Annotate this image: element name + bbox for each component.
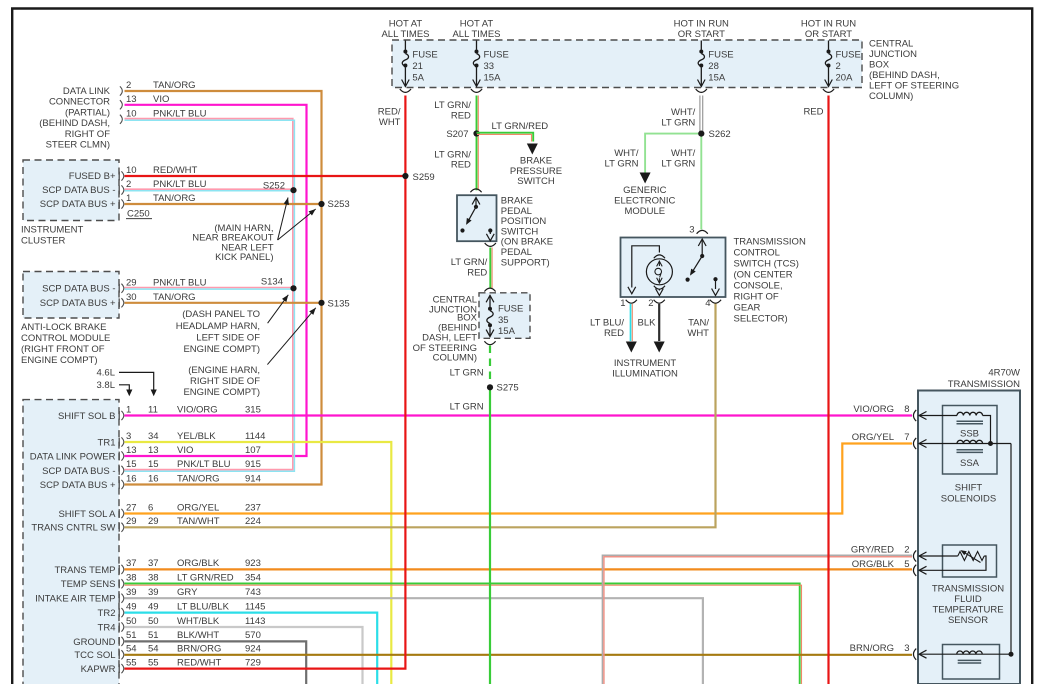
svg-text:10: 10: [126, 108, 137, 119]
svg-text:SUPPORT): SUPPORT): [501, 257, 550, 268]
svg-text:11: 11: [148, 404, 158, 415]
svg-text:TAN/: TAN/: [688, 318, 709, 329]
wire TAN/ORG: IC pin1 -> S253: [125, 203, 322, 205]
svg-text:SHIFT SOL B: SHIFT SOL B: [58, 411, 116, 422]
wire PNK/LT BLU: DLC pin10 -> S252 -> S134 -> PCM pin15 (pink strand): [125, 119, 293, 470]
wire RED: fuse2 -> off-page bottom: [827, 96, 829, 684]
svg-text:(BEHIND DASH,: (BEHIND DASH,: [39, 118, 110, 129]
svg-text:SHIFT: SHIFT: [955, 483, 983, 494]
svg-text:ENGINE COMPT): ENGINE COMPT): [183, 387, 260, 398]
svg-text:VIO: VIO: [153, 94, 169, 105]
PCM pin 15 (SCP DATA BUS -): [118, 466, 120, 475]
svg-text:39: 39: [126, 587, 137, 598]
svg-text:TCC SOL: TCC SOL: [74, 650, 115, 661]
svg-text:SSA: SSA: [960, 458, 980, 469]
central junction box (fuse 35): [479, 293, 530, 339]
callout arrow to S252: [278, 198, 288, 241]
svg-text:TR2: TR2: [98, 608, 116, 619]
svg-text:4.6L: 4.6L: [97, 368, 116, 379]
wire ORG/YEL 237: PCM pin27 -> transmission pin7: [125, 444, 913, 514]
wire LT GRN/RED (red strand): [477, 96, 479, 191]
TCS switch arm (pin3): [701, 239, 703, 256]
svg-text:50: 50: [148, 616, 159, 627]
svg-text:KICK PANEL): KICK PANEL): [215, 252, 273, 263]
wire TAN/ORG: DLC pin2 -> S253 -> S135 -> PCM pin16: [125, 91, 322, 485]
svg-text:(ON CENTER: (ON CENTER: [734, 270, 793, 281]
svg-text:3.8L: 3.8L: [97, 380, 116, 391]
PCM pin 16 (SCP DATA BUS +): [118, 480, 120, 489]
svg-text:TAN/ORG: TAN/ORG: [153, 193, 196, 204]
svg-text:20A: 20A: [836, 73, 854, 84]
svg-text:RED: RED: [451, 160, 471, 171]
svg-text:RED/: RED/: [378, 107, 401, 118]
svg-text:29: 29: [126, 277, 137, 288]
wire LT GRN/RED: BPP switch -> fuse35 (green strand): [489, 248, 491, 289]
svg-text:BRN/ORG: BRN/ORG: [177, 644, 221, 655]
svg-text:C250: C250: [127, 209, 150, 220]
solenoid SSB coil: [957, 412, 983, 415]
svg-text:1144: 1144: [245, 431, 265, 442]
wire PNK/LT BLU: ABS pin29 -> S134: [125, 287, 293, 289]
svg-text:(ENGINE HARN,: (ENGINE HARN,: [188, 365, 260, 376]
svg-text:VIO: VIO: [177, 445, 193, 456]
arrow instrument illumination (pin1): [626, 342, 637, 353]
PCM pin 49 (TR2): [118, 608, 120, 617]
ABS pin 29: [118, 284, 120, 293]
PCM pin 39 (INTAKE AIR TEMP): [118, 594, 120, 603]
svg-text:RIGHT OF: RIGHT OF: [65, 129, 110, 140]
svg-text:SELECTOR): SELECTOR): [734, 314, 788, 325]
svg-text:FUSE: FUSE: [708, 50, 733, 61]
PCM pin 13 (DATA LINK POWER): [118, 452, 120, 461]
wire WHT/LT GRN: S262 -> TCS pin3: [700, 134, 702, 230]
svg-text:CONNECTOR: CONNECTOR: [49, 97, 110, 108]
svg-text:BLK/WHT: BLK/WHT: [177, 630, 219, 641]
svg-text:HOT AT: HOT AT: [389, 19, 423, 30]
ABS pin 30: [118, 298, 120, 307]
svg-text:HOT IN RUN: HOT IN RUN: [801, 19, 856, 30]
svg-text:CONSOLE,: CONSOLE,: [734, 281, 783, 292]
svg-text:354: 354: [245, 573, 261, 584]
svg-text:SCP DATA BUS -: SCP DATA BUS -: [42, 185, 115, 196]
svg-text:13: 13: [126, 445, 137, 456]
svg-text:237: 237: [245, 502, 261, 513]
TFT thermistor: [958, 552, 984, 561]
wire WHT/BLK 1143: PCM pin50 -> off-page bottom: [125, 627, 363, 684]
svg-text:2: 2: [126, 179, 131, 190]
splice S134: [290, 285, 296, 291]
svg-text:S275: S275: [497, 383, 519, 394]
svg-text:WHT/: WHT/: [614, 148, 639, 159]
svg-text:SENSOR: SENSOR: [948, 615, 988, 626]
TCS pin 4 connector arc: [710, 300, 721, 303]
4R70W transmission box: [918, 391, 1020, 684]
svg-text:S135: S135: [328, 299, 350, 310]
svg-text:ALL TIMES: ALL TIMES: [452, 29, 500, 40]
svg-text:LT GRN: LT GRN: [605, 158, 639, 169]
svg-text:GROUND: GROUND: [73, 637, 115, 648]
svg-text:SCP DATA BUS -: SCP DATA BUS -: [42, 466, 115, 477]
svg-text:TR1: TR1: [98, 437, 116, 448]
svg-text:TAN/ORG: TAN/ORG: [153, 80, 196, 91]
svg-text:SSB: SSB: [960, 429, 979, 440]
svg-text:TRANS CNTRL SW: TRANS CNTRL SW: [31, 523, 115, 534]
splice S252: [290, 187, 296, 193]
TCC solenoid inner box: [943, 645, 1000, 680]
svg-text:570: 570: [245, 630, 261, 641]
svg-text:TAN/WHT: TAN/WHT: [177, 516, 220, 527]
TCS pin 2 connector arc: [654, 300, 665, 303]
svg-text:GEAR: GEAR: [734, 303, 761, 314]
svg-text:LT GRN/RED: LT GRN/RED: [492, 121, 549, 132]
TCS switch fixed contact: [686, 278, 690, 282]
arrow instrument illumination (pin2): [654, 342, 665, 353]
svg-text:1145: 1145: [245, 601, 265, 612]
splice S135: [318, 300, 324, 306]
wire RED/WHT 729: fuse21 -> S259 -> PCM pin55: [125, 96, 406, 669]
svg-text:ILLUMINATION: ILLUMINATION: [612, 369, 678, 380]
svg-text:HOT IN RUN: HOT IN RUN: [674, 19, 729, 30]
svg-text:LEFT OF STEERING: LEFT OF STEERING: [869, 81, 959, 92]
svg-text:RED: RED: [604, 328, 624, 339]
wire LT GRN: S275 -> off-page bottom: [489, 385, 491, 684]
svg-text:54: 54: [126, 644, 137, 655]
PCM pin 55 (KAPWR): [118, 664, 120, 673]
svg-text:S259: S259: [413, 172, 435, 183]
PCM pin 54 (TCC SOL): [118, 650, 120, 659]
svg-text:SHIFT SOL A: SHIFT SOL A: [58, 509, 116, 520]
svg-text:OR START: OR START: [805, 29, 852, 40]
svg-text:ENGINE COMPT): ENGINE COMPT): [183, 344, 260, 355]
svg-text:WHT: WHT: [687, 328, 709, 339]
PCM pin 1 (SHIFT SOL B): [118, 411, 120, 420]
svg-text:15A: 15A: [708, 73, 726, 84]
svg-text:FUSE: FUSE: [836, 50, 861, 61]
wire WHT/LT GRN: S262 -> generic electronic module: [645, 134, 701, 176]
svg-text:INTAKE AIR TEMP: INTAKE AIR TEMP: [35, 594, 115, 605]
svg-text:4: 4: [705, 298, 710, 309]
svg-text:28: 28: [708, 61, 719, 72]
IC pin 10: [118, 172, 120, 181]
wire GRY/RED (red strand): [604, 557, 912, 684]
wire PNK/LT BLU: IC pin2 -> S252: [125, 188, 293, 190]
svg-text:51: 51: [148, 630, 159, 641]
PCM pin 50 (TR4): [118, 623, 120, 632]
svg-text:16: 16: [126, 473, 137, 484]
svg-text:ORG/YEL: ORG/YEL: [177, 502, 219, 513]
svg-text:3: 3: [904, 643, 909, 654]
svg-text:TRANSMISSION: TRANSMISSION: [932, 584, 1004, 595]
svg-text:15A: 15A: [498, 326, 516, 337]
svg-text:RED/WHT: RED/WHT: [177, 657, 222, 668]
PCM pin 3 (TR1): [118, 438, 120, 447]
transmission fluid temp sensor inner box: [943, 545, 997, 577]
wire GRY/RED: transmission pin2 -> off-page bottom (grey strand): [602, 555, 912, 684]
svg-text:21: 21: [412, 61, 423, 72]
central junction box (fuse box): [392, 40, 862, 88]
svg-text:ALL TIMES: ALL TIMES: [381, 29, 429, 40]
svg-text:DATA LINK: DATA LINK: [63, 86, 111, 97]
svg-text:OR START: OR START: [678, 29, 725, 40]
svg-text:1: 1: [126, 193, 131, 204]
svg-text:INSTRUMENT: INSTRUMENT: [21, 225, 83, 236]
svg-text:LT BLU/: LT BLU/: [590, 318, 624, 329]
svg-text:5A: 5A: [412, 73, 424, 84]
svg-text:1143: 1143: [245, 616, 265, 627]
svg-text:TRANSMISSION: TRANSMISSION: [734, 237, 806, 248]
svg-text:SWITCH: SWITCH: [517, 176, 555, 187]
splice S207: [473, 130, 479, 136]
svg-text:(DASH PANEL TO: (DASH PANEL TO: [182, 309, 260, 320]
svg-text:BOX: BOX: [869, 60, 890, 71]
svg-text:WHT/: WHT/: [671, 107, 696, 118]
svg-text:30: 30: [126, 292, 137, 303]
svg-text:38: 38: [148, 573, 159, 584]
svg-text:ENGINE COMPT): ENGINE COMPT): [21, 355, 98, 366]
svg-text:PNK/LT BLU: PNK/LT BLU: [153, 277, 207, 288]
shift solenoids inner box: [943, 406, 998, 475]
DLC pin 2: [120, 86, 122, 95]
brake pedal position switch box: [457, 195, 497, 241]
svg-text:49: 49: [126, 601, 137, 612]
svg-text:S262: S262: [709, 129, 731, 140]
svg-text:TEMP SENS: TEMP SENS: [61, 579, 116, 590]
svg-text:ELECTRONIC: ELECTRONIC: [614, 196, 675, 207]
svg-text:ORG/BLK: ORG/BLK: [852, 559, 895, 570]
svg-text:CENTRAL: CENTRAL: [869, 39, 913, 50]
svg-text:2: 2: [904, 545, 909, 556]
callout arrow to S135: [267, 308, 315, 365]
svg-text:2: 2: [648, 298, 653, 309]
svg-text:CLUSTER: CLUSTER: [21, 235, 65, 246]
svg-text:LT GRN: LT GRN: [661, 117, 695, 128]
svg-text:LT GRN/: LT GRN/: [434, 100, 471, 111]
svg-text:10: 10: [126, 165, 137, 176]
svg-text:55: 55: [148, 657, 159, 668]
BPP switch fixed contact: [460, 228, 464, 232]
svg-text:GRY/RED: GRY/RED: [851, 545, 894, 556]
DLC pin 10: [120, 115, 122, 124]
svg-text:PNK/LT BLU: PNK/LT BLU: [153, 108, 207, 119]
svg-text:33: 33: [484, 61, 495, 72]
svg-text:VIO/ORG: VIO/ORG: [177, 404, 218, 415]
svg-text:TEMPERATURE: TEMPERATURE: [932, 605, 1003, 616]
splice S259: [402, 173, 408, 179]
callout arrow to S253: [278, 209, 316, 240]
BPP switch input connector arc: [470, 189, 481, 192]
splice S253: [318, 201, 324, 207]
svg-text:39: 39: [148, 587, 159, 598]
svg-text:RIGHT OF: RIGHT OF: [734, 292, 779, 303]
svg-text:LT BLU/BLK: LT BLU/BLK: [177, 601, 230, 612]
PCM box (bottom left module): [23, 400, 119, 684]
svg-text:50: 50: [126, 616, 137, 627]
svg-text:SCP DATA BUS -: SCP DATA BUS -: [42, 284, 115, 295]
wire WHT/LT GRN: fuse28 -> S262 (white outline pair): [699, 96, 701, 134]
TCS illumination lamp: [654, 255, 665, 258]
wire RED/WHT: IC pin10 -> S259: [125, 175, 406, 177]
wire TAN/ORG: ABS pin30 -> S135: [125, 302, 322, 304]
splice S262: [698, 131, 704, 137]
svg-text:LT GRN: LT GRN: [661, 158, 695, 169]
svg-text:LEFT SIDE OF: LEFT SIDE OF: [196, 332, 260, 343]
svg-text:GENERIC: GENERIC: [623, 185, 666, 196]
svg-text:ORG/BLK: ORG/BLK: [177, 558, 220, 569]
svg-text:TR4: TR4: [98, 622, 116, 633]
wire BLK/WHT 570: PCM pin51 -> off-page bottom: [125, 641, 307, 684]
svg-text:TAN/ORG: TAN/ORG: [177, 473, 220, 484]
svg-text:15: 15: [148, 459, 159, 470]
wire BRN/ORG 924: PCM pin54 -> transmission pin3: [125, 654, 913, 656]
PCM pin 38 (TEMP SENS): [118, 579, 120, 588]
svg-text:DATA LINK POWER: DATA LINK POWER: [30, 451, 116, 462]
svg-text:51: 51: [126, 630, 137, 641]
svg-text:LT GRN/: LT GRN/: [451, 257, 488, 268]
svg-text:4R70W: 4R70W: [988, 367, 1020, 378]
svg-text:15: 15: [126, 459, 137, 470]
IC pin 2: [118, 186, 120, 195]
svg-text:BRN/ORG: BRN/ORG: [850, 643, 894, 654]
svg-text:COLUMN): COLUMN): [869, 91, 913, 102]
fuse35 input connector arc: [484, 288, 495, 291]
wire VIO/ORG 315: PCM pin1 -> transmission pin8: [125, 414, 913, 416]
solenoid SSA coil: [957, 440, 983, 443]
svg-text:S252: S252: [263, 181, 285, 192]
svg-text:743: 743: [245, 587, 261, 598]
svg-text:15A: 15A: [484, 73, 502, 84]
svg-text:MODULE: MODULE: [624, 206, 665, 217]
svg-text:HOT AT: HOT AT: [460, 19, 494, 30]
svg-text:BLK: BLK: [638, 318, 657, 329]
wire LT GRN/RED 354 (red strand): [125, 585, 802, 684]
BPP switch contact arm: [475, 198, 477, 207]
svg-text:RED: RED: [803, 107, 823, 118]
svg-text:1: 1: [620, 298, 625, 309]
wire BLK: TCS pin2 -> instrument illumination: [658, 304, 660, 341]
fuse 28 15A: [700, 41, 702, 50]
svg-text:HEADLAMP HARN,: HEADLAMP HARN,: [176, 321, 260, 332]
svg-text:PNK/LT BLU: PNK/LT BLU: [177, 459, 231, 470]
svg-text:29: 29: [148, 516, 159, 527]
svg-text:SCP DATA BUS +: SCP DATA BUS +: [40, 199, 116, 210]
svg-text:915: 915: [245, 459, 261, 470]
svg-text:55: 55: [126, 657, 137, 668]
svg-text:RED: RED: [467, 268, 487, 279]
TCS pin 1 connector arc: [626, 300, 637, 303]
svg-text:COLUMN): COLUMN): [433, 353, 477, 364]
internal wire to TCC solenoid: [1010, 444, 1012, 655]
PCM pin 27 (SHIFT SOL A): [118, 509, 120, 518]
svg-text:29: 29: [126, 516, 137, 527]
svg-text:FUSE: FUSE: [412, 50, 437, 61]
arrow to generic electronic module: [640, 173, 651, 184]
wire GRY 743: PCM pin39 -> off-page bottom: [125, 598, 703, 684]
svg-text:2: 2: [126, 80, 131, 91]
svg-text:INSTRUMENT: INSTRUMENT: [614, 358, 676, 369]
svg-text:ANTI-LOCK BRAKE: ANTI-LOCK BRAKE: [21, 322, 107, 333]
svg-text:PNK/LT BLU: PNK/LT BLU: [153, 179, 207, 190]
wire LT GRN/RED branch: S207 -> brake pressure switch: [477, 133, 534, 142]
svg-text:VIO/ORG: VIO/ORG: [853, 404, 894, 415]
svg-text:RED/WHT: RED/WHT: [153, 165, 198, 176]
svg-text:13: 13: [148, 445, 159, 456]
svg-text:16: 16: [148, 473, 159, 484]
DLC pin 13: [120, 100, 122, 109]
svg-text:SCP DATA BUS +: SCP DATA BUS +: [40, 480, 116, 491]
PCM pin 51 (GROUND): [118, 637, 120, 646]
svg-text:GRY: GRY: [177, 587, 198, 598]
svg-text:CONTROL MODULE: CONTROL MODULE: [21, 333, 110, 344]
TCC solenoid coil: [957, 651, 983, 654]
fuse35 output connector arc: [484, 341, 495, 344]
svg-text:TRANS TEMP: TRANS TEMP: [54, 565, 115, 576]
svg-text:729: 729: [245, 657, 261, 668]
fuse 21 5A: [404, 41, 406, 50]
svg-text:37: 37: [126, 558, 137, 569]
wire LT BLU/BLK 1145: PCM pin49 -> off-page bottom: [125, 613, 378, 684]
PCM pin 29 (TRANS CNTRL SW): [118, 523, 120, 532]
svg-text:13: 13: [126, 94, 137, 105]
svg-text:(RIGHT FRONT OF: (RIGHT FRONT OF: [21, 344, 105, 355]
svg-text:(PARTIAL): (PARTIAL): [65, 107, 110, 118]
svg-text:YEL/BLK: YEL/BLK: [177, 431, 216, 442]
PCM pin 37 (TRANS TEMP): [118, 565, 120, 574]
svg-text:CONTROL: CONTROL: [734, 248, 780, 259]
svg-text:SOLENOIDS: SOLENOIDS: [941, 494, 996, 505]
svg-text:1: 1: [126, 404, 131, 415]
svg-text:224: 224: [245, 516, 261, 527]
wire LT GRN (dashed): fuse35 -> S275: [489, 346, 491, 386]
wire LT BLU/RED: TCS pin1 -> instrument illumination: [630, 304, 632, 341]
svg-text:35: 35: [498, 315, 509, 326]
svg-text:FUSE: FUSE: [498, 304, 523, 315]
IC pin 1: [118, 200, 120, 209]
svg-text:LT GRN: LT GRN: [450, 368, 484, 379]
svg-text:SWITCH (TCS): SWITCH (TCS): [734, 259, 799, 270]
svg-text:2: 2: [836, 61, 841, 72]
svg-text:914: 914: [245, 473, 261, 484]
junction SSB/SSA: [988, 441, 993, 446]
svg-text:(BEHIND DASH,: (BEHIND DASH,: [869, 70, 940, 81]
svg-text:27: 27: [126, 502, 137, 513]
svg-text:TAN/ORG: TAN/ORG: [153, 292, 196, 303]
svg-text:34: 34: [148, 431, 159, 442]
svg-text:8: 8: [904, 404, 909, 415]
svg-text:SCP DATA BUS +: SCP DATA BUS +: [40, 298, 116, 309]
svg-text:WHT/: WHT/: [671, 148, 696, 159]
fuse 2 20A: [828, 41, 830, 50]
svg-text:ORG/YEL: ORG/YEL: [852, 432, 894, 443]
wire ORG/BLK 923: PCM pin37 -> transmission pin5: [125, 568, 913, 570]
instrument cluster box: [23, 160, 119, 221]
transmission control switch box: [621, 238, 726, 298]
wire TAN/WHT 224: PCM pin29 -> TCS pin4: [125, 304, 716, 528]
arrow to brake pressure switch: [527, 144, 538, 155]
svg-text:WHT/BLK: WHT/BLK: [177, 616, 220, 627]
callout arrow to S134: [268, 295, 289, 323]
svg-text:WHT: WHT: [379, 117, 401, 128]
svg-text:54: 54: [148, 644, 159, 655]
TCS pin 3 connector arc: [697, 230, 708, 233]
anti-lock brake control module box: [23, 272, 119, 319]
svg-text:924: 924: [245, 644, 261, 655]
TCS pin 4 contact: [713, 277, 717, 281]
svg-text:3: 3: [126, 431, 131, 442]
fuse 35 15A: [489, 295, 491, 307]
wire LT GRN/RED: fuse33 -> S207 -> BPP switch (green strand): [476, 96, 478, 191]
svg-text:923: 923: [245, 558, 261, 569]
svg-text:107: 107: [245, 445, 261, 456]
